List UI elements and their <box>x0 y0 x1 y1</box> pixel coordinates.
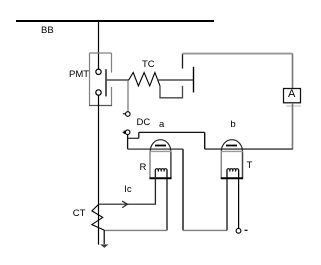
wire: U hook below interrupter <box>160 86 183 98</box>
wire: step down at node b side <box>204 132 206 149</box>
wire: CT bottom to ground arrow <box>103 230 105 244</box>
tube R heater leg left <box>154 170 156 205</box>
wire: corner left through tube T grid <box>205 148 293 150</box>
tube T body <box>220 151 222 178</box>
label PMT <box>69 70 89 80</box>
ammeter A box <box>284 89 301 103</box>
interrupter left electrode (top segment) <box>182 54 184 69</box>
label a <box>159 120 164 130</box>
tube T anode <box>226 145 237 147</box>
wire: down to ammeter top <box>292 54 294 89</box>
main vertical wire: PMT bottom to ground <box>98 95 100 244</box>
DC plus terminal <box>125 130 130 135</box>
grid line R: DC to grid corner <box>128 148 183 150</box>
wire: DC plus down to grid line <box>127 135 129 150</box>
label Ic <box>124 185 131 195</box>
wire Ic: CT tap to R heater <box>99 203 155 205</box>
label A (ammeter) <box>288 89 295 100</box>
wire: grid corner down <box>182 149 184 230</box>
interrupter right electrode plate <box>193 67 195 93</box>
label BB <box>41 26 54 36</box>
tube T cathode coil <box>227 169 239 179</box>
tube R cathode coil <box>155 169 167 179</box>
label TC <box>142 60 155 70</box>
wire: TC left end down to aux terminal <box>127 81 129 112</box>
wire: node a run <box>139 131 205 133</box>
tube T heater leg left <box>226 170 228 230</box>
ground arrow <box>100 244 108 248</box>
ammeter shadow <box>286 105 301 107</box>
PMT contact blade <box>105 69 107 96</box>
wire: top run to ammeter <box>183 53 293 55</box>
wire: PMT to TC resistor <box>106 79 129 81</box>
tube R anode <box>155 145 166 147</box>
tube R heater leg right <box>166 170 168 230</box>
Ic tap arrow <box>122 201 127 208</box>
bus bar BB <box>16 20 214 22</box>
PMT bottom contact circle <box>96 90 101 95</box>
tube R dome <box>150 140 171 152</box>
tube T heater leg right <box>238 170 240 228</box>
label R <box>140 163 147 173</box>
tube R body <box>149 151 151 178</box>
DC minus terminal <box>126 112 131 117</box>
CT zigzag <box>92 204 104 230</box>
label CT <box>73 209 86 219</box>
wire: bus to PMT top contact <box>98 20 100 69</box>
wire: CT bottom to R right leg <box>104 229 167 231</box>
wire: step up from DC plus <box>138 132 140 138</box>
PMT top contact circle <box>96 69 101 74</box>
wire: TC to interrupter plate <box>157 79 194 81</box>
wire: ammeter bottom down to corner <box>292 103 294 149</box>
PMT enclosure box <box>89 53 112 106</box>
label b <box>230 120 235 130</box>
label T <box>247 161 253 171</box>
minus output terminal <box>236 228 241 233</box>
label DC <box>137 118 151 128</box>
resistor TC zigzag <box>129 73 160 86</box>
tube T dome <box>221 140 242 152</box>
wire: bottom run to tube T heater <box>183 229 227 231</box>
